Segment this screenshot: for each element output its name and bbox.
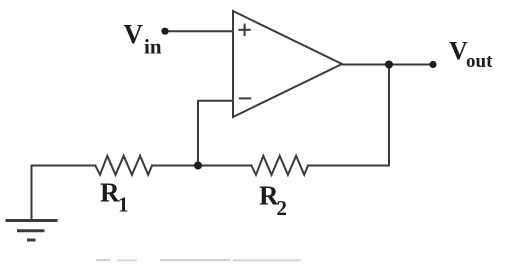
label R2: [259, 181, 287, 221]
label R1: [100, 178, 129, 217]
wire - input to feedback node: [198, 101, 233, 166]
svg-text:2: 2: [277, 196, 288, 220]
node A (feedback junction): [194, 162, 202, 170]
node Vout terminal: [429, 61, 436, 68]
pin + (non-inverting input): [239, 25, 249, 35]
wire R1 to ground: [32, 166, 96, 221]
ground: [7, 221, 56, 241]
node Vin terminal: [161, 28, 168, 35]
svg-text:out: out: [466, 51, 493, 72]
op-amp U1: [233, 11, 342, 117]
caption fragment (cropped text at bottom edge): [96, 259, 301, 261]
svg-text:R: R: [100, 178, 120, 208]
resistor R2: [251, 156, 308, 175]
wire node A to R1: [152, 165, 198, 167]
wire Vin to + input: [166, 30, 233, 32]
svg-text:V: V: [124, 19, 144, 49]
svg-text:1: 1: [118, 193, 129, 217]
wire R2 to node A: [198, 165, 251, 167]
svg-text:in: in: [144, 34, 162, 58]
wire output: [342, 64, 433, 66]
wire feedback vertical: [308, 65, 389, 166]
node output junction: [385, 61, 393, 69]
pin - (inverting input): [240, 97, 250, 99]
resistor R1: [95, 156, 152, 175]
label Vout: [449, 36, 493, 72]
label Vin: [124, 19, 162, 58]
